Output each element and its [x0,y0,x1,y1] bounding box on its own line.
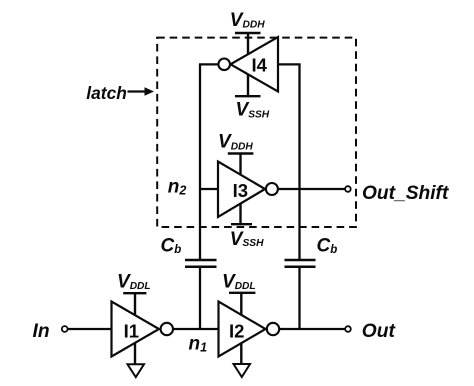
svg-text:I3: I3 [233,180,248,201]
svg-text:In: In [33,321,50,342]
svg-text:latch: latch [86,83,127,103]
svg-text:I1: I1 [124,320,139,341]
svg-text:I4: I4 [252,55,268,76]
svg-text:Out_Shift: Out_Shift [362,183,450,204]
svg-text:Out: Out [362,321,397,342]
svg-text:I2: I2 [229,320,244,341]
